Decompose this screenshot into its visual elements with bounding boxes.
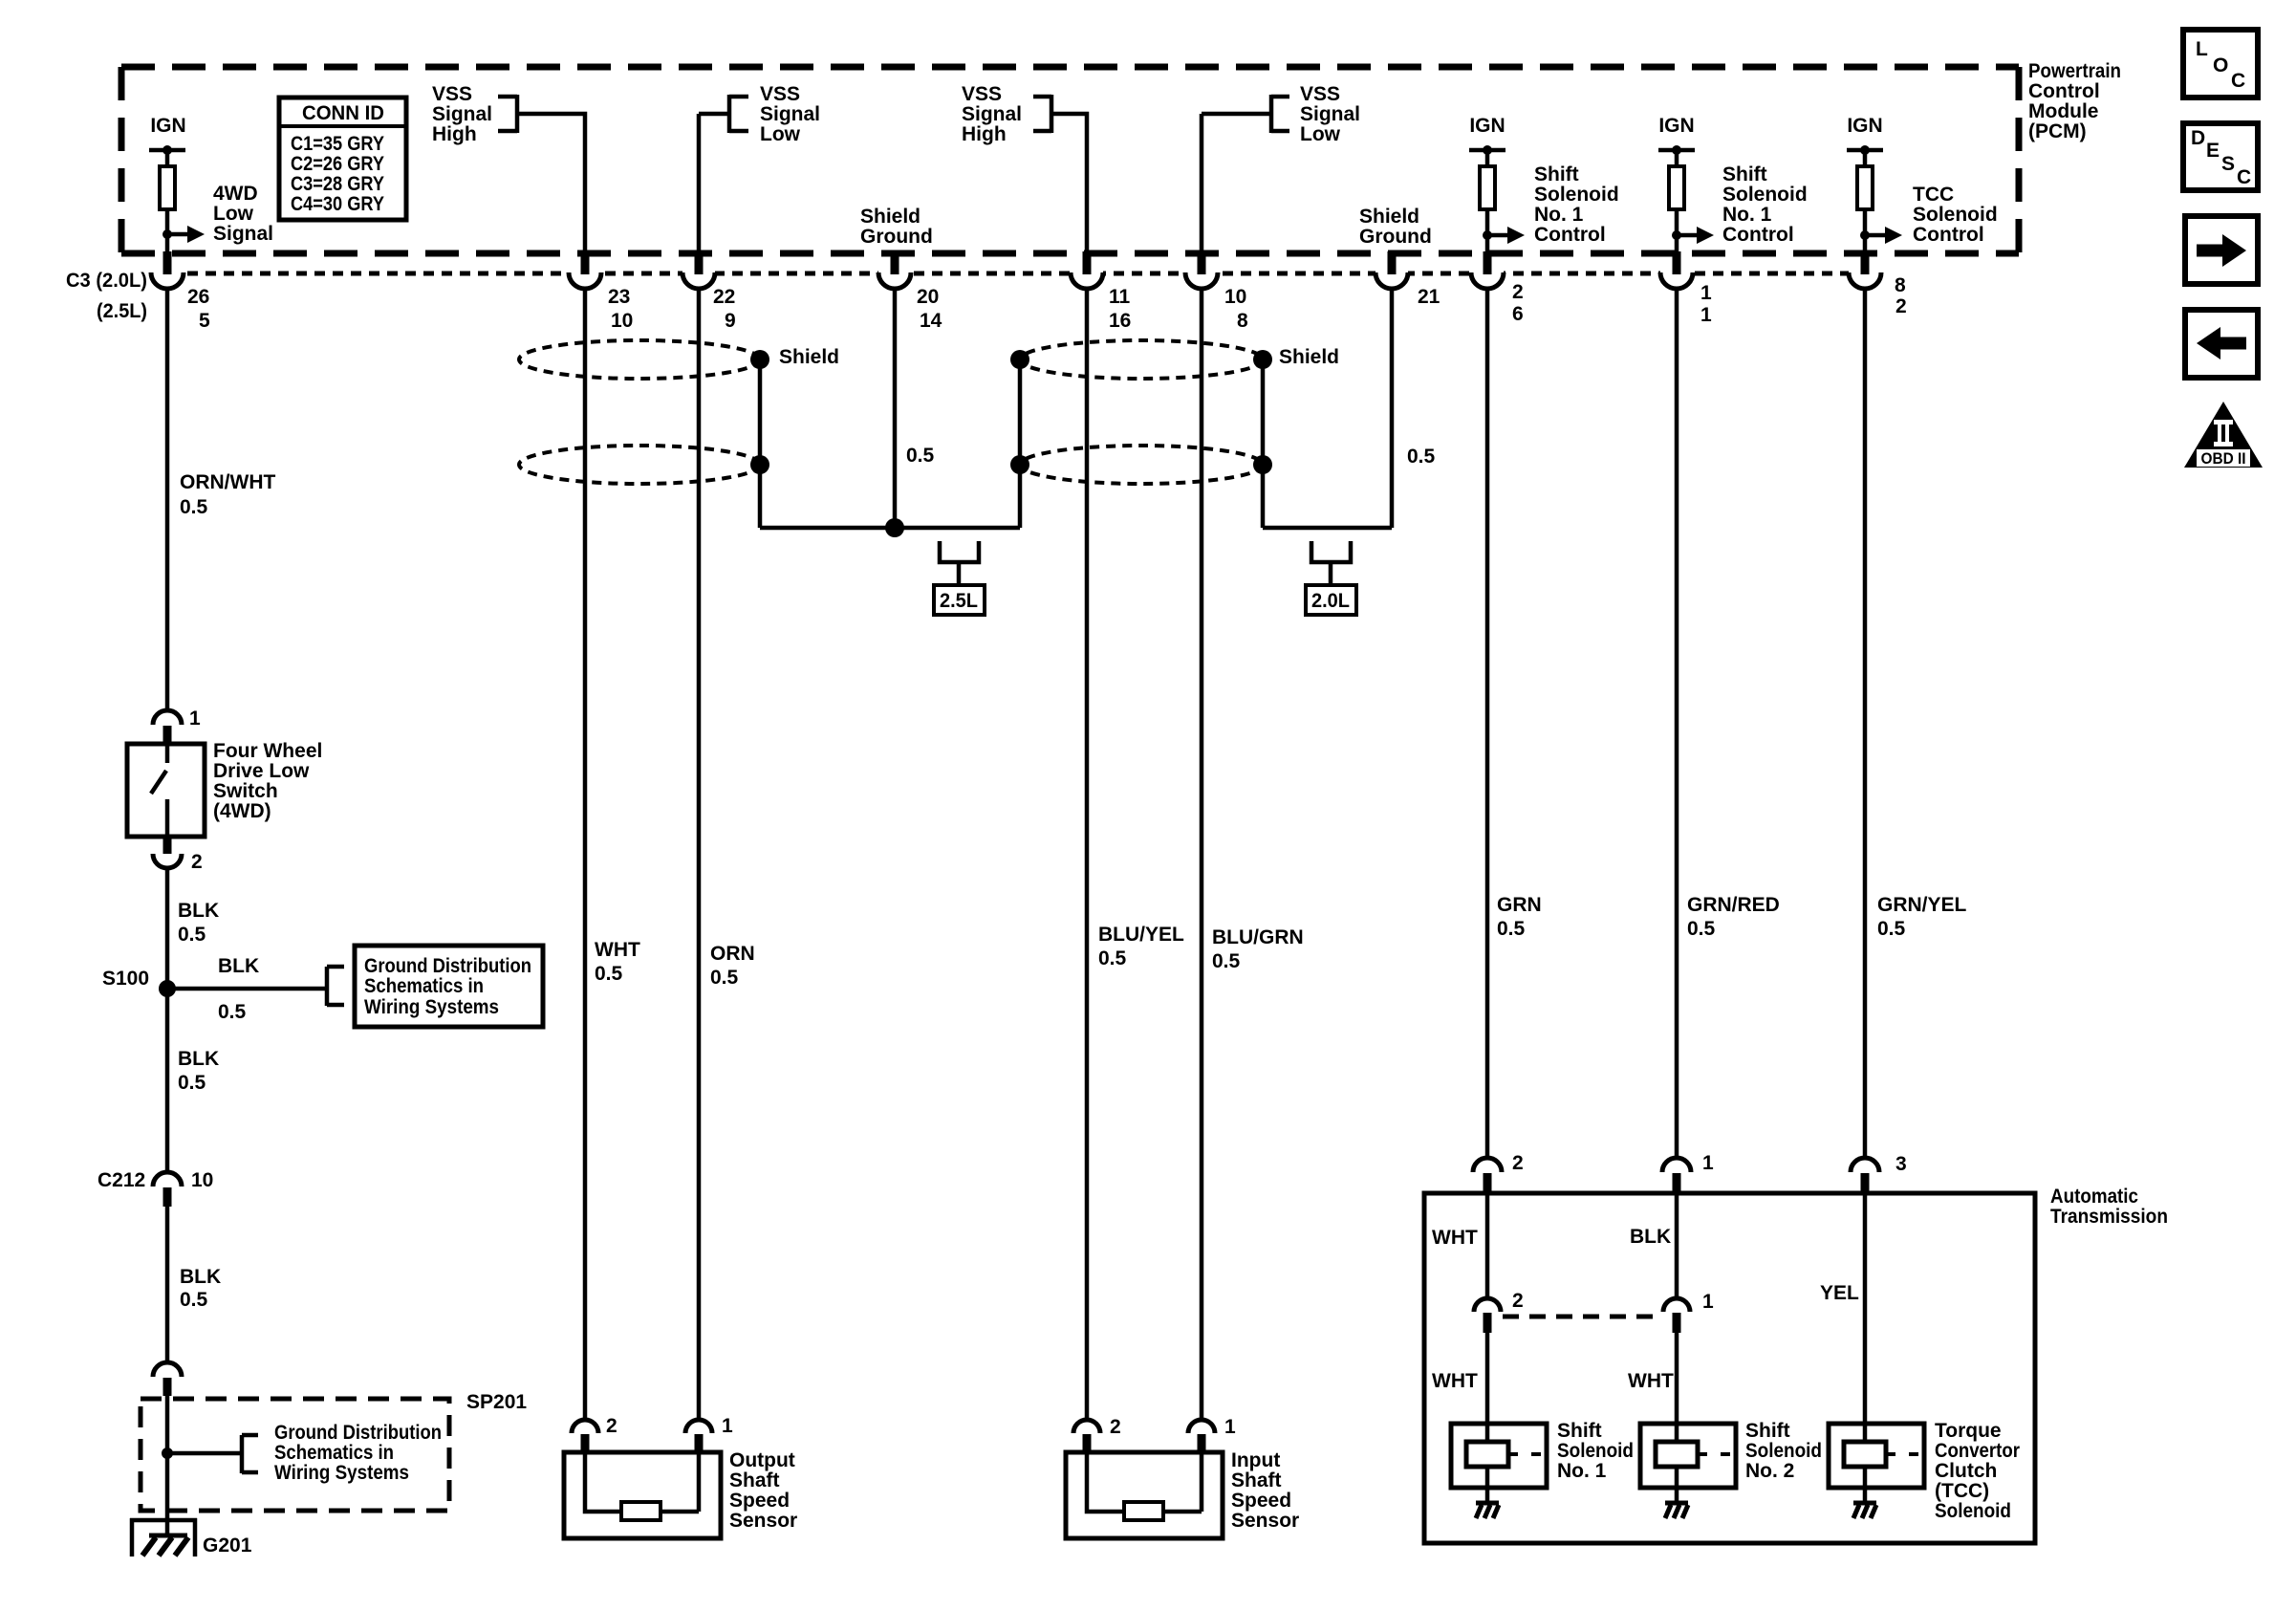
svg-text:0.5: 0.5: [178, 924, 206, 946]
svg-text:S: S: [2221, 153, 2235, 175]
svg-text:Signal: Signal: [1300, 103, 1360, 125]
svg-text:Torque: Torque: [1935, 1420, 2002, 1442]
svg-text:Shift: Shift: [1745, 1420, 1790, 1442]
svg-text:Wiring Systems: Wiring Systems: [364, 996, 499, 1018]
svg-text:1: 1: [1700, 282, 1712, 304]
svg-text:1: 1: [722, 1415, 733, 1437]
svg-text:No. 1: No. 1: [1557, 1460, 1607, 1482]
svg-text:No. 2: No. 2: [1745, 1460, 1794, 1482]
svg-text:Solenoid: Solenoid: [1534, 184, 1619, 206]
svg-text:Powertrain: Powertrain: [2028, 60, 2121, 82]
svg-text:2: 2: [1512, 281, 1524, 303]
svg-text:Control: Control: [1722, 224, 1794, 246]
svg-text:Input: Input: [1231, 1449, 1280, 1471]
svg-text:Shield: Shield: [1359, 206, 1419, 228]
svg-text:Schematics in: Schematics in: [364, 975, 484, 997]
svg-text:2: 2: [1512, 1290, 1524, 1312]
svg-text:2: 2: [1110, 1416, 1121, 1438]
svg-text:Ground Distribution: Ground Distribution: [274, 1422, 442, 1444]
svg-text:Solenoid: Solenoid: [1722, 184, 1808, 206]
svg-text:ORN/WHT: ORN/WHT: [180, 471, 275, 493]
svg-text:C2=26 GRY: C2=26 GRY: [291, 153, 384, 175]
svg-text:9: 9: [725, 310, 736, 332]
svg-text:BLU/YEL: BLU/YEL: [1098, 924, 1184, 946]
svg-text:(TCC): (TCC): [1935, 1480, 1989, 1502]
svg-text:Ground: Ground: [860, 226, 933, 248]
svg-text:5: 5: [199, 310, 210, 332]
svg-text:C4=30 GRY: C4=30 GRY: [291, 193, 384, 215]
svg-text:C1=35 GRY: C1=35 GRY: [291, 133, 384, 155]
svg-text:8: 8: [1895, 274, 1906, 296]
svg-text:0.5: 0.5: [1212, 950, 1241, 972]
svg-text:21: 21: [1418, 286, 1440, 308]
svg-text:11: 11: [1109, 286, 1131, 308]
svg-text:VSS: VSS: [760, 83, 800, 105]
svg-text:SP201: SP201: [466, 1391, 527, 1413]
svg-text:IGN: IGN: [1847, 115, 1882, 137]
svg-text:CONN ID: CONN ID: [302, 102, 384, 124]
svg-text:GRN/RED: GRN/RED: [1687, 894, 1780, 916]
svg-text:2.0L: 2.0L: [1311, 590, 1350, 612]
svg-text:1: 1: [1224, 1416, 1236, 1438]
svg-text:WHT: WHT: [595, 939, 640, 961]
svg-text:0.5: 0.5: [1497, 918, 1526, 940]
svg-text:Signal: Signal: [760, 103, 820, 125]
svg-text:2: 2: [1895, 295, 1907, 317]
svg-text:Sensor: Sensor: [1231, 1510, 1299, 1532]
svg-text:BLK: BLK: [180, 1266, 221, 1288]
svg-text:0.5: 0.5: [1407, 446, 1436, 468]
svg-text:(4WD): (4WD): [213, 800, 271, 822]
svg-text:Speed: Speed: [729, 1490, 790, 1512]
svg-text:C: C: [2231, 70, 2245, 92]
svg-text:Drive Low: Drive Low: [213, 760, 310, 782]
svg-text:0.5: 0.5: [710, 967, 739, 989]
svg-text:Ground Distribution: Ground Distribution: [364, 955, 531, 977]
svg-text:Ground: Ground: [1359, 226, 1432, 248]
svg-text:Sensor: Sensor: [729, 1510, 797, 1532]
svg-text:BLU/GRN: BLU/GRN: [1212, 926, 1304, 948]
svg-text:IGN: IGN: [1469, 115, 1505, 137]
svg-text:Signal: Signal: [213, 223, 273, 245]
svg-text:BLK: BLK: [178, 900, 219, 922]
svg-text:0.5: 0.5: [180, 1289, 208, 1311]
svg-text:Low: Low: [760, 123, 801, 145]
svg-text:Schematics in: Schematics in: [274, 1442, 394, 1464]
svg-text:Speed: Speed: [1231, 1490, 1291, 1512]
svg-text:Output: Output: [729, 1449, 795, 1471]
svg-text:WHT: WHT: [1628, 1370, 1674, 1392]
svg-text:Shaft: Shaft: [729, 1469, 780, 1491]
svg-text:Clutch: Clutch: [1935, 1460, 1997, 1482]
svg-text:Solenoid: Solenoid: [1557, 1440, 1634, 1462]
svg-text:10: 10: [1224, 286, 1246, 308]
svg-text:1: 1: [1700, 304, 1712, 326]
svg-text:ORN: ORN: [710, 943, 755, 965]
svg-text:C3=28 GRY: C3=28 GRY: [291, 173, 384, 195]
svg-text:O: O: [2213, 54, 2228, 76]
svg-text:2: 2: [1512, 1152, 1524, 1174]
svg-text:Four Wheel: Four Wheel: [213, 740, 322, 762]
svg-text:Shift: Shift: [1722, 163, 1767, 185]
svg-text:GRN: GRN: [1497, 894, 1542, 916]
svg-text:1: 1: [1702, 1291, 1714, 1313]
svg-text:WHT: WHT: [1432, 1227, 1478, 1249]
svg-text:S100: S100: [102, 968, 149, 990]
svg-text:(2.5L): (2.5L): [97, 300, 147, 322]
svg-text:Signal: Signal: [962, 103, 1022, 125]
svg-text:Control: Control: [2028, 80, 2100, 102]
svg-text:23: 23: [608, 286, 630, 308]
svg-text:High: High: [962, 123, 1007, 145]
svg-text:(PCM): (PCM): [2028, 120, 2087, 142]
svg-text:No. 1: No. 1: [1534, 204, 1584, 226]
svg-text:G201: G201: [203, 1535, 252, 1557]
svg-text:IGN: IGN: [150, 115, 185, 137]
svg-text:10: 10: [611, 310, 633, 332]
svg-text:Low: Low: [1300, 123, 1341, 145]
svg-text:20: 20: [917, 286, 939, 308]
svg-text:TCC: TCC: [1913, 184, 1954, 206]
svg-text:VSS: VSS: [1300, 83, 1340, 105]
svg-text:Transmission: Transmission: [2050, 1206, 2168, 1228]
svg-text:No. 1: No. 1: [1722, 204, 1772, 226]
svg-text:Solenoid: Solenoid: [1913, 204, 1998, 226]
svg-text:6: 6: [1512, 303, 1524, 325]
svg-text:1: 1: [1702, 1152, 1714, 1174]
svg-text:Solenoid: Solenoid: [1745, 1440, 1822, 1462]
svg-text:VSS: VSS: [432, 83, 472, 105]
svg-text:Shield: Shield: [1279, 346, 1339, 368]
svg-text:VSS: VSS: [962, 83, 1002, 105]
svg-text:IGN: IGN: [1658, 115, 1694, 137]
svg-text:14: 14: [920, 310, 942, 332]
svg-text:Switch: Switch: [213, 780, 278, 802]
svg-text:2.5L: 2.5L: [940, 590, 978, 612]
svg-text:8: 8: [1237, 310, 1248, 332]
svg-text:0.5: 0.5: [1098, 947, 1127, 969]
svg-text:Low: Low: [213, 203, 254, 225]
svg-text:Shift: Shift: [1557, 1420, 1602, 1442]
svg-text:GRN/YEL: GRN/YEL: [1877, 894, 1967, 916]
svg-text:0.5: 0.5: [595, 963, 623, 985]
svg-text:Control: Control: [1913, 224, 1984, 246]
svg-text:C212: C212: [97, 1169, 145, 1191]
svg-text:Shaft: Shaft: [1231, 1469, 1282, 1491]
svg-text:Control: Control: [1534, 224, 1606, 246]
svg-text:Convertor: Convertor: [1935, 1440, 2020, 1462]
svg-text:Shield: Shield: [860, 206, 921, 228]
svg-text:WHT: WHT: [1432, 1370, 1478, 1392]
svg-text:0.5: 0.5: [1687, 918, 1716, 940]
svg-text:0.5: 0.5: [180, 496, 208, 518]
svg-text:OBD II: OBD II: [2201, 449, 2246, 468]
svg-text:Wiring Systems: Wiring Systems: [274, 1462, 409, 1484]
svg-text:C: C: [2237, 166, 2251, 188]
svg-text:22: 22: [713, 286, 735, 308]
svg-text:C3 (2.0L): C3 (2.0L): [66, 270, 147, 292]
svg-text:E: E: [2206, 140, 2220, 162]
svg-text:0.5: 0.5: [1877, 918, 1906, 940]
svg-text:Module: Module: [2028, 100, 2099, 122]
svg-text:YEL: YEL: [1820, 1282, 1859, 1304]
svg-text:2: 2: [606, 1415, 617, 1437]
svg-text:0.5: 0.5: [178, 1072, 206, 1094]
svg-text:10: 10: [191, 1169, 213, 1191]
svg-text:Automatic: Automatic: [2050, 1186, 2138, 1208]
svg-text:Signal: Signal: [432, 103, 492, 125]
svg-text:4WD: 4WD: [213, 183, 258, 205]
svg-text:Solenoid: Solenoid: [1935, 1500, 2011, 1522]
svg-text:Shift: Shift: [1534, 163, 1579, 185]
svg-text:0.5: 0.5: [218, 1001, 247, 1023]
svg-text:BLK: BLK: [218, 955, 259, 977]
svg-text:0.5: 0.5: [906, 445, 935, 467]
svg-text:3: 3: [1895, 1153, 1907, 1175]
svg-text:1: 1: [189, 708, 201, 729]
svg-text:16: 16: [1109, 310, 1131, 332]
svg-text:BLK: BLK: [1630, 1226, 1671, 1248]
svg-text:BLK: BLK: [178, 1048, 219, 1070]
svg-text:L: L: [2196, 38, 2208, 60]
svg-text:Shield: Shield: [779, 346, 839, 368]
svg-text:26: 26: [187, 286, 209, 308]
svg-text:High: High: [432, 123, 477, 145]
svg-text:D: D: [2191, 127, 2205, 149]
svg-text:2: 2: [191, 851, 203, 873]
